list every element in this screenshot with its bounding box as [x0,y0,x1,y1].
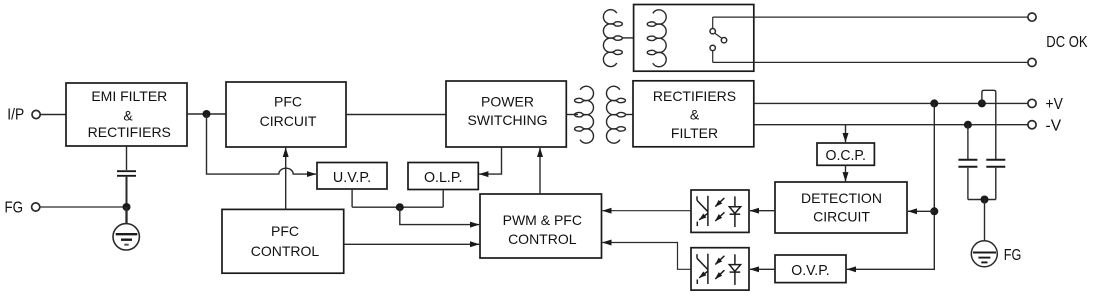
switch S1 upper contact [710,29,715,34]
wire opto U2 to PWM & PFC CONTROL [602,243,691,270]
wire capacitor C3 down [967,168,969,200]
svg-text:FILTER: FILTER [671,125,718,141]
wire capacitor join [968,199,996,201]
wire opto U1 to PWM & PFC CONTROL [602,210,691,212]
terminal FG [32,203,40,211]
svg-text:O.C.P.: O.C.P. [826,147,866,164]
svg-text:DC OK: DC OK [1046,34,1087,51]
wire O.L.P. down [442,190,444,208]
svg-text:O.V.P.: O.V.P. [791,262,829,279]
svg-text:&: & [690,107,700,123]
svg-text:EMI FILTER: EMI FILTER [91,88,167,104]
svg-text:PFC: PFC [271,223,299,239]
opto-coupler U1 [691,190,749,232]
wire PFC CIRCUIT to POWER SWITCHING [346,114,446,116]
svg-text:SWITCHING: SWITCHING [467,112,547,128]
wire PFC CONTROL to PFC CIRCUIT [285,148,287,210]
node junction H [123,203,131,211]
block O.C.P. [817,143,874,165]
node junction C on sense bus [930,207,938,215]
svg-text:CIRCUIT: CIRCUIT [813,209,870,225]
wire T1 secondary to RECTIFIERS & FILTER [625,114,633,116]
wire DC OK lower [713,61,1028,63]
terminal DC OK lower [1028,58,1036,66]
switch S1 upper lead [712,17,714,28]
wire O.V.P. to opto U2 [750,268,775,270]
terminal -V [1028,121,1036,129]
capacitor C1 under EMI [126,146,128,170]
wire +V sense bus down [847,103,934,269]
svg-text:CIRCUIT: CIRCUIT [260,113,317,129]
terminal +V [1028,99,1036,107]
wire UVP-OLP join [352,206,443,208]
transformer T1 primary winding [575,86,594,143]
svg-text:POWER: POWER [481,93,534,109]
block O.V.P. [775,255,846,283]
node junction B on +V rail [930,99,938,107]
svg-text:PFC: PFC [274,93,302,109]
terminal I/P [32,110,40,118]
svg-text:I/P: I/P [7,107,24,124]
wire capacitor C2 down [995,168,997,200]
block U.V.P. [317,163,387,190]
ground earth left [113,224,139,250]
block O.L.P. [408,163,478,190]
wire capacitor C1 to FG line [126,177,128,207]
wire -V rail [754,124,1028,126]
transformer T2 auxiliary primary winding [603,10,622,67]
svg-text:CONTROL: CONTROL [508,231,577,247]
svg-text:FG: FG [5,199,24,216]
svg-text:U.V.P.: U.V.P. [333,169,371,186]
block EMI FILTER & RECTIFIERS [66,83,187,146]
svg-text:-V: -V [1046,117,1062,134]
svg-text:+V: +V [1046,96,1064,113]
block PFC CIRCUIT [226,82,346,147]
wire -V to O.C.P. [845,125,847,143]
ground earth FG right [971,241,997,267]
wire +V rail [754,102,1028,104]
block PFC CONTROL [222,209,344,273]
capacitor C2 [986,160,1005,167]
wire DETECTION CIRCUIT to opto U1 [750,210,775,212]
wire POWER SWITCHING to O.L.P. [479,147,501,174]
wire -V to capacitor C3 [967,125,969,160]
switch S1 moving contact [721,38,726,43]
svg-text:FG: FG [1004,247,1022,264]
block DETECTION CIRCUIT [775,182,907,233]
block DC OK relay box [634,5,754,72]
switch S1 lower lead [712,51,714,63]
svg-text:CONTROL: CONTROL [251,243,320,259]
node junction E on -V rail [964,121,972,129]
wire O.C.P. to DETECTION CIRCUIT [845,165,847,181]
terminal DC OK upper [1028,13,1036,21]
svg-text:RECTIFIERS: RECTIFIERS [88,124,171,140]
block PWM & PFC CONTROL [480,194,602,258]
wire PFC CONTROL to PWM & PFC CONTROL [344,243,480,245]
wire PWM to POWER SWITCHING [539,148,541,194]
block RECTIFIERS & FILTER [633,81,754,147]
node junction D on +V rail [978,99,986,107]
wire junction A to U.V.P. with crossover hop [207,114,317,174]
svg-text:&: & [123,107,133,123]
wire U.V.P. down [351,189,353,207]
svg-text:DETECTION: DETECTION [801,190,882,206]
transformer T2 secondary winding [647,10,666,67]
wire to earth ground left [125,207,127,234]
wire POWER SWITCHING to transformer T1 primary [566,114,578,116]
wire EMI to PFC CIRCUIT [187,113,226,115]
wire I/P to EMI [41,114,66,116]
svg-text:O.L.P.: O.L.P. [424,169,462,186]
opto-coupler U2 [691,248,749,290]
switch S1 lever [715,33,722,38]
block POWER SWITCHING [446,81,566,147]
node junction F [981,196,989,204]
svg-text:RECTIFIERS: RECTIFIERS [653,88,736,104]
wire to earth FG right [984,200,986,253]
wire junction G to PWM & PFC CONTROL [400,207,479,224]
node junction A [203,110,211,118]
node junction G [396,203,404,211]
wire sense bus to DETECTION CIRCUIT [908,210,934,212]
wire T2 primary to DC OK box [622,37,634,39]
transformer T1 secondary winding [606,86,625,143]
switch S1 lower contact [710,45,715,50]
wire FG [40,206,126,208]
wire +V hop to capacitor C2 [982,90,996,159]
svg-text:PWM & PFC: PWM & PFC [503,212,582,228]
wire DC OK upper [713,16,1028,18]
capacitor C3 [958,160,977,167]
